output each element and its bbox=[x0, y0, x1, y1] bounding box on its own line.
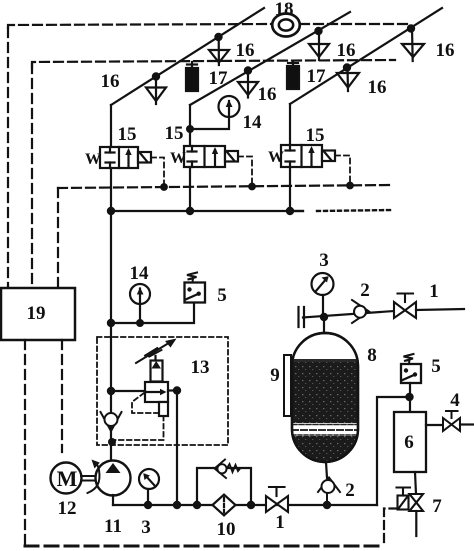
svg-text:W: W bbox=[85, 151, 101, 168]
junction bbox=[108, 208, 114, 214]
pump 11 bbox=[96, 461, 131, 496]
svg-text:15: 15 bbox=[165, 123, 184, 144]
ellipse 18 (signal device on bus A) bbox=[272, 14, 300, 37]
wire: pilot dashes (regulator sensing) bbox=[114, 393, 164, 440]
junction on bus C bbox=[347, 183, 353, 189]
svg-text:10: 10 bbox=[217, 519, 236, 540]
electric motor M 12 bbox=[51, 463, 82, 494]
wire: pilot dashes from valve 15c solenoid bbox=[335, 156, 350, 186]
wire: solid manifold line bbox=[111, 210, 303, 212]
junction below switch 5 bbox=[406, 394, 412, 400]
relief valve adjusting spring arrow bbox=[136, 339, 177, 364]
control box 19 bbox=[1, 288, 75, 340]
svg-text:19: 19 bbox=[27, 303, 46, 324]
wire: dotted continuation of manifold bbox=[317, 210, 393, 211]
wire: riser below valve 15c to manifold bbox=[290, 167, 303, 211]
svg-text:13: 13 bbox=[191, 357, 210, 378]
wire: pilot dashes from valve 15b solenoid bbox=[238, 157, 252, 187]
svg-text:7: 7 bbox=[432, 496, 442, 517]
box 6 bbox=[394, 412, 426, 472]
wire: spray boom 3 (diagonal) bbox=[290, 8, 442, 104]
svg-text:16: 16 bbox=[236, 40, 255, 61]
wire: dashed electric line from 19 to motor bbox=[61, 340, 63, 452]
svg-text:17: 17 bbox=[307, 66, 327, 87]
wire: spray boom 1 (diagonal) bbox=[111, 8, 264, 105]
svg-text:5: 5 bbox=[431, 356, 441, 377]
svg-text:16: 16 bbox=[436, 40, 455, 61]
node on boom2 bbox=[315, 28, 321, 34]
nozzle 16 (boom1 upper) bbox=[209, 37, 229, 65]
wire: main supply line from valve 15a down to pump bbox=[110, 211, 112, 460]
wire: switch 5 stem to box 6 bbox=[409, 383, 411, 412]
svg-text:15: 15 bbox=[306, 125, 325, 146]
wire: box 6 bottom stem bbox=[415, 472, 416, 494]
wire: dashed electric bus A (top, y~25) bbox=[8, 24, 272, 28]
wire: spray boom 2 (diagonal) bbox=[190, 12, 350, 105]
coupling shaft bbox=[81, 476, 97, 481]
svg-text:5: 5 bbox=[217, 285, 227, 306]
svg-text:1: 1 bbox=[275, 512, 285, 533]
check valve 2 (top) bbox=[352, 300, 369, 323]
wire: dashed vertical from bus C down to box 19 bbox=[57, 188, 59, 288]
solenoid valve 15b (2/2 valve) bbox=[184, 146, 238, 167]
box 13 (pressure regulator unit, dashed) bbox=[97, 337, 228, 445]
capped port (plug) bbox=[299, 307, 305, 327]
svg-text:2: 2 bbox=[345, 480, 355, 501]
gauge 14 (upper) bbox=[190, 96, 240, 129]
wire: box 6 to valve 4 bbox=[426, 424, 443, 426]
wire: dashed electric line to valve 7 bbox=[384, 509, 398, 546]
junction: relief return bbox=[174, 502, 180, 508]
wire: dashed electric bus B (y~62) bbox=[32, 60, 395, 68]
wire: right riser from suction line up to switch row bbox=[377, 397, 409, 505]
svg-text:3: 3 bbox=[141, 517, 151, 538]
svg-text:17: 17 bbox=[209, 68, 229, 89]
svg-text:2: 2 bbox=[360, 280, 370, 301]
wire: valve 4 outlet bbox=[460, 423, 473, 425]
junction: gauge 3 / accumulator tap bbox=[321, 314, 327, 320]
wire: return line down to suction line bbox=[176, 391, 178, 506]
svg-text:M: M bbox=[57, 466, 78, 491]
wire: bottom electric bus (heavy dashed) bbox=[25, 545, 384, 548]
nozzle 16 (boom2 upper) bbox=[309, 31, 329, 60]
junction bbox=[145, 502, 151, 508]
wire: dashed electric bus C (y~187) to solenoid pilots bbox=[58, 185, 392, 188]
solenoid valve 15c (2/2 valve) bbox=[281, 145, 335, 167]
junction bbox=[109, 439, 115, 445]
gauge 14 (left) bbox=[130, 284, 150, 323]
node on boom3 bbox=[344, 64, 350, 70]
svg-text:6: 6 bbox=[404, 432, 414, 453]
junction on bus C bbox=[161, 184, 167, 190]
wire: accumulator top stem bbox=[323, 317, 325, 333]
nozzle 16 (boom1 lower) bbox=[146, 76, 166, 104]
wire: riser below valve 15a to manifold bbox=[110, 168, 112, 211]
wire: pump suction stem bbox=[112, 495, 114, 505]
pressure switch 5 (right) bbox=[401, 354, 421, 383]
svg-text:15: 15 bbox=[118, 124, 137, 145]
junction bbox=[248, 502, 254, 508]
solenoid valve 15a (2/2 valve) bbox=[100, 147, 151, 168]
wire: riser 3 from boom to valve 15c bbox=[289, 104, 291, 145]
nozzle 16 (boom3 lower) bbox=[337, 67, 359, 91]
node on boom3 bbox=[408, 25, 414, 31]
shut-off valve 1 (bottom) bbox=[266, 487, 288, 512]
nozzle 16 (boom3 upper) bbox=[402, 28, 424, 61]
svg-text:14: 14 bbox=[130, 263, 150, 284]
svg-text:18: 18 bbox=[275, 0, 294, 20]
svg-text:9: 9 bbox=[270, 365, 280, 386]
wire: accumulator bottom stem bbox=[326, 462, 327, 478]
wire: riser below valve 15b to manifold bbox=[189, 167, 191, 211]
junction bbox=[137, 320, 143, 326]
filter 17 (right, on bus B) bbox=[287, 61, 299, 89]
svg-text:16: 16 bbox=[101, 71, 120, 92]
svg-text:4: 4 bbox=[450, 390, 460, 411]
junction bbox=[187, 208, 193, 214]
filter 10 bbox=[213, 495, 236, 516]
relief valve 13 body bbox=[145, 356, 168, 416]
check valve 2 (bottom, below accumulator) bbox=[318, 478, 340, 506]
wire: pilot dashes from valve 15a solenoid bbox=[151, 158, 164, 188]
gauge 3 (at pump) bbox=[139, 469, 159, 505]
junction bbox=[108, 388, 114, 394]
shut-off valve 1 (top) bbox=[394, 294, 416, 319]
svg-text:3: 3 bbox=[319, 250, 329, 271]
svg-text:16: 16 bbox=[258, 84, 277, 105]
junction bbox=[324, 502, 330, 508]
wire: dashed vertical from bus B down to box 19 bbox=[31, 64, 33, 288]
wire: valve 7 outlet down bbox=[415, 511, 417, 536]
wire: dashed electric line from 19 to bottom bus bbox=[24, 340, 26, 545]
junction bbox=[194, 502, 200, 508]
accumulator 8 bbox=[292, 333, 358, 462]
bracket 9 (level gauge) bbox=[284, 355, 291, 416]
solenoid drain valve 7 bbox=[397, 488, 424, 512]
junction on bus C bbox=[249, 184, 255, 190]
svg-text:16: 16 bbox=[337, 40, 356, 61]
svg-text:8: 8 bbox=[367, 345, 377, 366]
junction bbox=[174, 387, 180, 393]
junction on riser 2 bbox=[187, 126, 193, 132]
junction: gauge row tap bbox=[108, 320, 114, 326]
wire: accumulator top line bbox=[303, 311, 394, 318]
svg-text:W: W bbox=[170, 150, 186, 167]
wire: relief valve outlet to return line bbox=[168, 389, 177, 391]
svg-text:16: 16 bbox=[368, 77, 387, 98]
wire: filter bypass loop bbox=[197, 468, 251, 505]
wire: bottom suction/return line bbox=[113, 504, 377, 506]
wire: riser 2 from boom to valve 15b bbox=[189, 105, 191, 146]
junction bbox=[287, 208, 293, 214]
rotation arrow bbox=[88, 460, 100, 494]
wire: open line to right bbox=[416, 309, 464, 310]
wire: gauge/pressure-switch branch line bbox=[111, 303, 194, 323]
svg-text:12: 12 bbox=[58, 498, 77, 519]
gauge 3 (top) bbox=[312, 273, 334, 317]
svg-text:14: 14 bbox=[243, 112, 263, 133]
svg-text:11: 11 bbox=[104, 516, 122, 537]
node on boom2 bbox=[245, 67, 251, 73]
node on boom1 bbox=[215, 34, 221, 40]
nozzle 16 (boom2 lower) bbox=[238, 70, 258, 98]
check valve (inside box 13) bbox=[101, 412, 122, 431]
wire: branch into relief valve bbox=[111, 390, 145, 392]
shut-off valve 4 bbox=[443, 411, 460, 431]
svg-text:1: 1 bbox=[429, 281, 439, 302]
bypass check valve with spring bbox=[215, 460, 241, 479]
filter 17 (left, on bus B) bbox=[186, 62, 198, 91]
pressure switch 5 (left) bbox=[185, 273, 206, 303]
node on boom1 bbox=[153, 73, 159, 79]
wire: dashed vertical from bus A down to box 19 bbox=[7, 28, 9, 288]
svg-text:W: W bbox=[268, 149, 284, 166]
wire: riser 1 from boom to valve 15a bbox=[110, 105, 112, 147]
